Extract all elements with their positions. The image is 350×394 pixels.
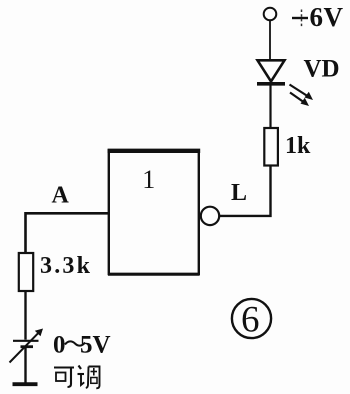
gate top edge thick [108, 149, 201, 153]
LED light arrow 1 [290, 85, 314, 101]
svg-text:1: 1 [142, 165, 155, 194]
svg-text:6: 6 [241, 300, 260, 341]
调 [79, 366, 82, 370]
terminal +6V [264, 8, 277, 21]
svg-text:L: L [231, 180, 247, 206]
wire LED to resistor 1k [269, 84, 271, 128]
svg-text:0: 0 [53, 332, 66, 359]
可 [54, 366, 74, 368]
svg-text:3.3k: 3.3k [40, 253, 92, 279]
battery long plate [13, 340, 39, 342]
wire resistor to output node [220, 166, 271, 216]
label +6V [292, 2, 344, 32]
resistor R2 3.3k [19, 253, 33, 291]
wire resistor to source [24, 291, 26, 340]
gate bottom edge [108, 273, 200, 276]
adjustable arrow [10, 329, 44, 363]
svg-text:6V: 6V [310, 2, 344, 32]
ground [13, 382, 38, 386]
svg-text:VD: VD [304, 56, 340, 83]
LED light arrow 2 [290, 93, 309, 107]
gate U1 body [109, 150, 199, 274]
battery short plate [21, 345, 34, 348]
inverter output bubble [201, 207, 219, 225]
wire source to ground [24, 348, 26, 383]
svg-text:5V: 5V [80, 332, 111, 359]
wire supply to LED [269, 21, 271, 60]
input wire node A [26, 213, 109, 253]
svg-text:A: A [52, 183, 70, 209]
resistor R1 1k [264, 128, 278, 166]
figure number circle 6 [232, 299, 271, 338]
label 可调 (hand-drawn glyphs) [54, 366, 100, 389]
label 0~5V [53, 332, 111, 359]
LED VD [257, 60, 285, 84]
svg-text:1k: 1k [285, 133, 311, 159]
